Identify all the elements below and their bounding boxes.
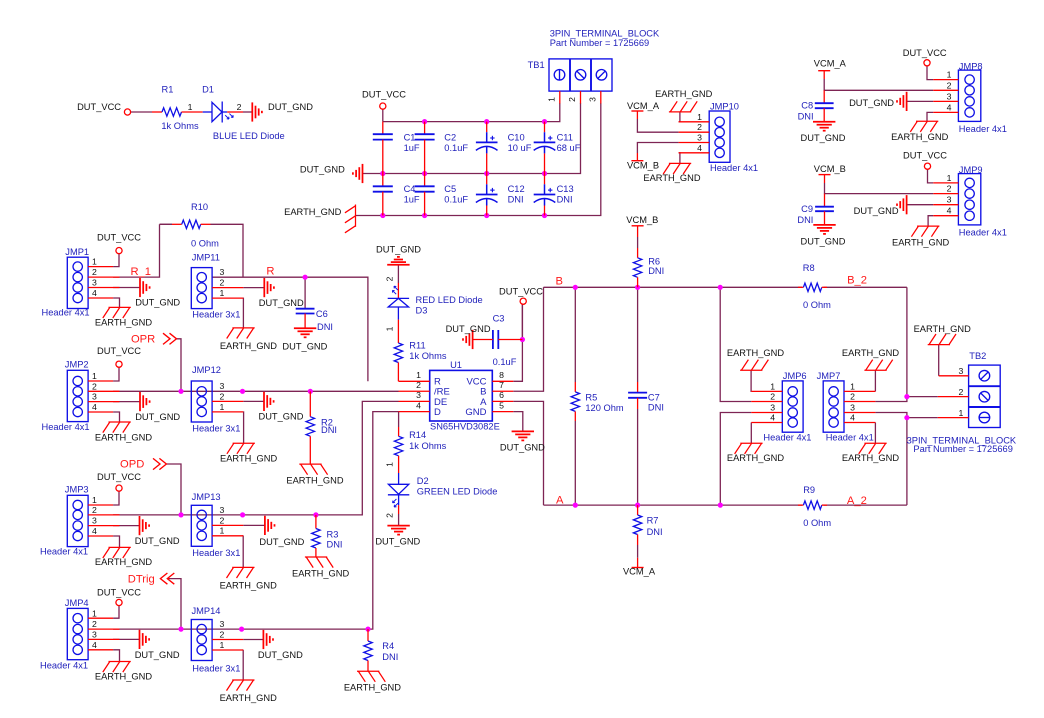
svg-text:DUT_GND: DUT_GND xyxy=(135,650,180,660)
svg-text:1: 1 xyxy=(546,97,556,102)
svg-text:DUT_GND: DUT_GND xyxy=(300,165,345,175)
svg-text:EARTH_GND: EARTH_GND xyxy=(842,453,899,463)
svg-text:1: 1 xyxy=(92,371,97,381)
svg-text:DNI: DNI xyxy=(508,195,524,205)
svg-text:OPR: OPR xyxy=(131,334,155,346)
svg-text:B_2: B_2 xyxy=(847,275,867,287)
svg-text:DNI: DNI xyxy=(557,195,573,205)
svg-text:DUT_GND: DUT_GND xyxy=(446,324,491,334)
svg-text:DUT_GND: DUT_GND xyxy=(376,245,421,255)
svg-text:DUT_GND: DUT_GND xyxy=(268,102,313,112)
svg-text:EARTH_GND: EARTH_GND xyxy=(95,671,152,681)
svg-text:Header 3x1: Header 3x1 xyxy=(192,663,240,673)
svg-text:1: 1 xyxy=(220,402,225,412)
svg-text:DUT_GND: DUT_GND xyxy=(849,98,894,108)
svg-text:10 uF: 10 uF xyxy=(508,143,532,153)
svg-text:3: 3 xyxy=(220,381,225,391)
svg-text:1: 1 xyxy=(697,112,702,122)
svg-text:D: D xyxy=(434,407,441,418)
svg-text:1k Ohms: 1k Ohms xyxy=(409,441,447,451)
svg-text:8: 8 xyxy=(499,370,504,380)
svg-text:C6: C6 xyxy=(316,309,328,319)
svg-text:A: A xyxy=(556,494,564,506)
svg-text:DNI: DNI xyxy=(648,266,664,276)
svg-text:3: 3 xyxy=(947,195,952,205)
svg-text:DUT_VCC: DUT_VCC xyxy=(97,232,141,242)
svg-text:68 uF: 68 uF xyxy=(557,143,581,153)
svg-text:DUT_GND: DUT_GND xyxy=(135,412,180,422)
svg-text:4: 4 xyxy=(947,102,952,112)
svg-text:DUT_GND: DUT_GND xyxy=(259,537,304,547)
svg-text:Header 4x1: Header 4x1 xyxy=(42,422,90,432)
svg-text:C13: C13 xyxy=(557,184,574,194)
svg-text:3: 3 xyxy=(220,505,225,515)
svg-text:Header 4x1: Header 4x1 xyxy=(42,308,90,318)
svg-text:R: R xyxy=(266,266,274,278)
svg-text:B: B xyxy=(556,275,563,287)
svg-text:C4: C4 xyxy=(404,184,416,194)
svg-text:EARTH_GND: EARTH_GND xyxy=(727,348,784,358)
svg-text:3: 3 xyxy=(770,403,775,413)
svg-text:4: 4 xyxy=(92,288,97,298)
svg-text:Header 4x1: Header 4x1 xyxy=(959,227,1007,237)
svg-text:EARTH_GND: EARTH_GND xyxy=(220,454,277,464)
svg-text:6: 6 xyxy=(499,390,504,400)
svg-text:EARTH_GND: EARTH_GND xyxy=(727,453,784,463)
svg-text:Header 4x1: Header 4x1 xyxy=(710,163,758,173)
svg-text:4: 4 xyxy=(947,206,952,216)
svg-text:EARTH_GND: EARTH_GND xyxy=(95,432,152,442)
svg-text:EARTH_GND: EARTH_GND xyxy=(891,132,948,142)
svg-text:4: 4 xyxy=(697,143,702,153)
svg-text:R6: R6 xyxy=(648,256,660,266)
svg-text:1: 1 xyxy=(770,381,775,391)
svg-text:1: 1 xyxy=(188,102,193,112)
svg-text:DNI: DNI xyxy=(798,111,814,121)
svg-text:JMP13: JMP13 xyxy=(192,492,221,502)
svg-text:0 Ohm: 0 Ohm xyxy=(191,239,219,249)
svg-text:3: 3 xyxy=(92,516,97,526)
svg-text:VCM_A: VCM_A xyxy=(623,567,656,577)
svg-text:DUT_VCC: DUT_VCC xyxy=(903,150,947,160)
svg-text:DNI: DNI xyxy=(797,215,813,225)
svg-text:1: 1 xyxy=(92,257,97,267)
svg-text:4: 4 xyxy=(770,413,775,423)
svg-text:JMP10: JMP10 xyxy=(710,101,739,111)
svg-text:R8: R8 xyxy=(803,263,815,273)
svg-text:1: 1 xyxy=(384,326,394,331)
svg-text:Header 3x1: Header 3x1 xyxy=(192,423,240,433)
svg-text:RED LED Diode: RED LED Diode xyxy=(416,295,483,305)
svg-text:C8: C8 xyxy=(801,101,813,111)
svg-text:DUT_GND: DUT_GND xyxy=(375,537,420,547)
svg-text:C12: C12 xyxy=(508,184,525,194)
svg-text:JMP7: JMP7 xyxy=(817,371,841,381)
svg-text:1: 1 xyxy=(947,70,952,80)
svg-text:EARTH_GND: EARTH_GND xyxy=(220,693,277,703)
svg-text:DUT_GND: DUT_GND xyxy=(259,412,304,422)
svg-text:0.1uF: 0.1uF xyxy=(444,143,468,153)
svg-text:2: 2 xyxy=(947,184,952,194)
svg-text:DUT_VCC: DUT_VCC xyxy=(97,346,141,356)
svg-text:2: 2 xyxy=(697,122,702,132)
svg-text:JMP1: JMP1 xyxy=(65,247,89,257)
svg-text:3: 3 xyxy=(697,133,702,143)
svg-text:D3: D3 xyxy=(416,305,428,315)
svg-text:2: 2 xyxy=(92,505,97,515)
svg-text:DUT_VCC: DUT_VCC xyxy=(97,472,141,482)
svg-text:DUT_GND: DUT_GND xyxy=(258,650,303,660)
svg-text:DNI: DNI xyxy=(327,539,343,549)
svg-text:C2: C2 xyxy=(444,132,456,142)
svg-text:3: 3 xyxy=(92,278,97,288)
svg-text:VCM_B: VCM_B xyxy=(626,215,658,225)
svg-text:BLUE LED Diode: BLUE LED Diode xyxy=(213,131,285,141)
svg-text:C5: C5 xyxy=(444,184,456,194)
svg-text:EARTH_GND: EARTH_GND xyxy=(643,173,700,183)
svg-text:0 Ohm: 0 Ohm xyxy=(803,518,831,528)
svg-text:4: 4 xyxy=(850,413,855,423)
svg-text:JMP2: JMP2 xyxy=(65,360,89,370)
svg-text:3: 3 xyxy=(92,630,97,640)
svg-text:1: 1 xyxy=(416,370,421,380)
svg-text:2: 2 xyxy=(220,629,225,639)
svg-text:2: 2 xyxy=(220,391,225,401)
svg-text:R7: R7 xyxy=(647,515,659,525)
svg-text:DUT_GND: DUT_GND xyxy=(282,341,327,351)
svg-text:TB1: TB1 xyxy=(528,60,545,70)
svg-text:DTrig: DTrig xyxy=(128,574,155,586)
svg-text:JMP4: JMP4 xyxy=(65,598,89,608)
svg-text:2: 2 xyxy=(850,392,855,402)
svg-text:JMP14: JMP14 xyxy=(192,606,221,616)
svg-text:4: 4 xyxy=(416,400,421,410)
svg-text:JMP9: JMP9 xyxy=(959,165,983,175)
svg-text:DNI: DNI xyxy=(648,403,664,413)
svg-text:0 Ohm: 0 Ohm xyxy=(803,300,831,310)
svg-text:VCM_B: VCM_B xyxy=(627,160,659,170)
svg-text:3: 3 xyxy=(958,366,963,376)
svg-text:0.1uF: 0.1uF xyxy=(493,357,517,367)
svg-text:D1: D1 xyxy=(202,84,214,94)
svg-text:1: 1 xyxy=(384,462,394,467)
svg-text:Part Number = 1725669: Part Number = 1725669 xyxy=(913,444,1013,454)
svg-text:JMP11: JMP11 xyxy=(192,252,220,262)
svg-text:EARTH_GND: EARTH_GND xyxy=(292,569,349,579)
svg-text:EARTH_GND: EARTH_GND xyxy=(220,341,277,351)
svg-text:DUT_VCC: DUT_VCC xyxy=(499,286,543,296)
svg-text:DUT_VCC: DUT_VCC xyxy=(903,48,947,58)
svg-text:R14: R14 xyxy=(409,430,426,440)
svg-text:Header 3x1: Header 3x1 xyxy=(192,310,240,320)
svg-text:Header 4x1: Header 4x1 xyxy=(959,124,1007,134)
svg-text:JMP12: JMP12 xyxy=(192,365,221,375)
svg-text:DNI: DNI xyxy=(382,652,398,662)
svg-text:DUT_GND: DUT_GND xyxy=(135,536,180,546)
svg-text:3: 3 xyxy=(587,97,597,102)
svg-text:R1: R1 xyxy=(162,84,174,94)
svg-text:DUT_VCC: DUT_VCC xyxy=(97,587,141,597)
svg-text:1: 1 xyxy=(220,526,225,536)
svg-text:DNI: DNI xyxy=(647,527,663,537)
svg-text:3: 3 xyxy=(850,403,855,413)
svg-text:C1: C1 xyxy=(404,132,416,142)
svg-text:2: 2 xyxy=(220,278,225,288)
svg-text:3PIN_TERMINAL_BLOCK: 3PIN_TERMINAL_BLOCK xyxy=(550,28,660,38)
svg-text:VCM_A: VCM_A xyxy=(627,101,660,111)
svg-text:1uF: 1uF xyxy=(404,143,420,153)
svg-text:1: 1 xyxy=(220,640,225,650)
svg-text:4: 4 xyxy=(92,402,97,412)
svg-text:1k Ohms: 1k Ohms xyxy=(161,121,199,131)
svg-text:3: 3 xyxy=(416,390,421,400)
svg-text:EARTH_GND: EARTH_GND xyxy=(655,89,712,99)
svg-text:1k Ohms: 1k Ohms xyxy=(409,351,447,361)
svg-text:TB2: TB2 xyxy=(969,351,986,361)
svg-text:2: 2 xyxy=(567,97,577,102)
svg-text:2: 2 xyxy=(237,102,242,112)
svg-text:3: 3 xyxy=(220,619,225,629)
svg-text:DNI: DNI xyxy=(321,425,337,435)
svg-text:DUT_GND: DUT_GND xyxy=(500,443,545,453)
svg-text:A_2: A_2 xyxy=(847,495,867,507)
svg-text:R3: R3 xyxy=(327,529,339,539)
svg-text:R10: R10 xyxy=(191,202,208,212)
svg-text:7: 7 xyxy=(499,380,504,390)
svg-text:EARTH_GND: EARTH_GND xyxy=(220,581,277,591)
svg-text:DUT_GND: DUT_GND xyxy=(801,237,846,247)
svg-text:EARTH_GND: EARTH_GND xyxy=(892,237,949,247)
svg-text:R11: R11 xyxy=(409,340,425,350)
svg-text:C9: C9 xyxy=(801,204,813,214)
svg-text:R9: R9 xyxy=(803,485,815,495)
svg-text:3: 3 xyxy=(92,392,97,402)
svg-text:OPD: OPD xyxy=(120,459,144,471)
svg-text:4: 4 xyxy=(92,640,97,650)
svg-text:2: 2 xyxy=(384,276,394,281)
svg-text:R4: R4 xyxy=(382,641,394,651)
svg-text:R5: R5 xyxy=(585,392,597,402)
svg-text:DNI: DNI xyxy=(317,322,333,332)
svg-text:DUT_GND: DUT_GND xyxy=(854,206,899,216)
svg-text:1: 1 xyxy=(92,495,97,505)
svg-text:U1: U1 xyxy=(450,360,462,370)
svg-text:SN65HVD3082E: SN65HVD3082E xyxy=(430,421,500,431)
svg-text:3: 3 xyxy=(947,91,952,101)
svg-text:1: 1 xyxy=(850,381,855,391)
svg-text:5: 5 xyxy=(499,400,504,410)
svg-text:EARTH_GND: EARTH_GND xyxy=(95,317,152,327)
svg-text:2: 2 xyxy=(384,513,394,518)
svg-text:Header 4x1: Header 4x1 xyxy=(40,547,88,557)
svg-text:GND: GND xyxy=(465,407,486,418)
svg-text:VCM_A: VCM_A xyxy=(814,58,847,68)
svg-text:DUT_GND: DUT_GND xyxy=(801,133,846,143)
svg-text:DUT_GND: DUT_GND xyxy=(259,298,304,308)
svg-text:VCM_B: VCM_B xyxy=(814,164,846,174)
svg-text:EARTH_GND: EARTH_GND xyxy=(284,207,341,217)
svg-text:1: 1 xyxy=(958,408,963,418)
svg-text:EARTH_GND: EARTH_GND xyxy=(842,348,899,358)
svg-text:Header 3x1: Header 3x1 xyxy=(192,548,240,558)
svg-text:R_1: R_1 xyxy=(131,266,152,278)
svg-text:1uF: 1uF xyxy=(404,195,420,205)
svg-text:1: 1 xyxy=(947,173,952,183)
svg-text:DUT_VCC: DUT_VCC xyxy=(362,90,406,100)
svg-text:1: 1 xyxy=(92,608,97,618)
svg-text:C10: C10 xyxy=(508,132,525,142)
svg-text:2: 2 xyxy=(958,387,963,397)
svg-text:JMP3: JMP3 xyxy=(65,485,89,495)
svg-text:120 Ohm: 120 Ohm xyxy=(585,403,623,413)
svg-text:C7: C7 xyxy=(648,392,660,402)
svg-text:EARTH_GND: EARTH_GND xyxy=(914,324,971,334)
svg-text:C11: C11 xyxy=(557,132,573,142)
svg-text:3: 3 xyxy=(220,267,225,277)
svg-text:EARTH_GND: EARTH_GND xyxy=(344,682,401,692)
svg-text:Part Number = 1725669: Part Number = 1725669 xyxy=(550,38,650,48)
svg-text:2: 2 xyxy=(770,392,775,402)
svg-text:EARTH_GND: EARTH_GND xyxy=(95,557,152,567)
svg-text:DUT_VCC: DUT_VCC xyxy=(77,102,121,112)
svg-text:2: 2 xyxy=(92,381,97,391)
svg-text:C3: C3 xyxy=(493,314,505,324)
svg-text:Header 4x1: Header 4x1 xyxy=(763,433,811,443)
svg-text:0.1uF: 0.1uF xyxy=(444,195,468,205)
svg-text:EARTH_GND: EARTH_GND xyxy=(286,475,343,485)
svg-text:JMP6: JMP6 xyxy=(783,371,807,381)
svg-text:Header 4x1: Header 4x1 xyxy=(826,433,874,443)
svg-text:1: 1 xyxy=(220,288,225,298)
svg-text:2: 2 xyxy=(92,267,97,277)
svg-text:4: 4 xyxy=(92,526,97,536)
svg-text:2: 2 xyxy=(947,80,952,90)
svg-text:2: 2 xyxy=(416,380,421,390)
svg-text:D2: D2 xyxy=(417,476,429,486)
svg-text:JMP8: JMP8 xyxy=(959,61,983,71)
svg-text:2: 2 xyxy=(92,619,97,629)
svg-text:DUT_GND: DUT_GND xyxy=(135,298,180,308)
svg-text:GREEN LED Diode: GREEN LED Diode xyxy=(417,487,498,497)
svg-text:2: 2 xyxy=(220,515,225,525)
svg-text:Header 4x1: Header 4x1 xyxy=(40,661,88,671)
